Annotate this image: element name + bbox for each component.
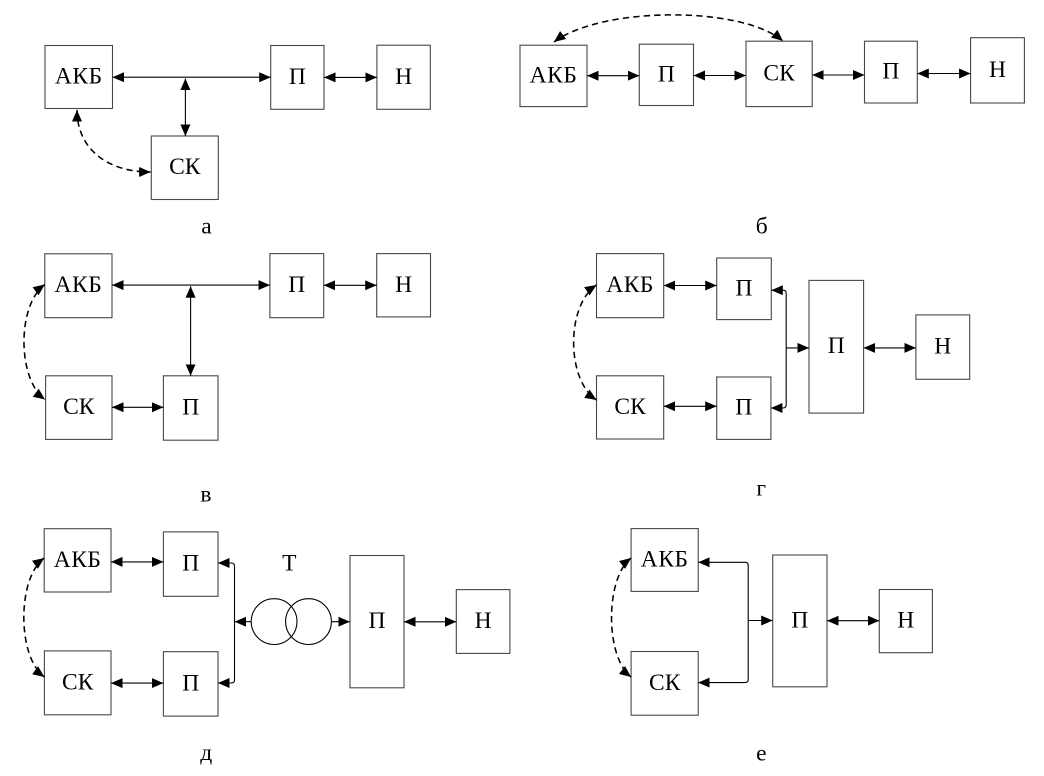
wire P2-N double arrow (b): [917, 73, 970, 75]
wire bus to AKB and SK (e): [698, 562, 748, 682]
wire P outputs to bus (d): [218, 563, 235, 683]
svg-text:АКБ: АКБ: [55, 272, 103, 298]
wire SK-P double arrow (g): [664, 405, 717, 407]
block P bottom (diagram d): [163, 652, 218, 716]
block P top (diagram d): [163, 532, 218, 596]
wire Pbig-N double arrow (d): [404, 621, 456, 623]
svg-text:П: П: [289, 64, 306, 90]
block SK (diagram a): [151, 136, 218, 200]
svg-text:е: е: [756, 741, 766, 767]
wire P outputs to bus (g): [771, 290, 786, 408]
svg-text:П: П: [828, 333, 845, 359]
block P1 (diagram b): [639, 44, 693, 105]
svg-text:СК: СК: [763, 60, 795, 86]
transformer T winding 2 (d): [286, 599, 332, 645]
block N (diagram a): [377, 45, 430, 109]
wire junction-P vertical double arrow (v): [190, 286, 192, 376]
svg-text:П: П: [288, 272, 305, 298]
wire AKB-P double arrow (v): [112, 284, 270, 286]
block N (diagram e): [879, 590, 932, 653]
block P bottom (diagram g): [717, 377, 771, 439]
svg-text:г: г: [756, 476, 766, 502]
block P bottom (diagram v): [163, 376, 218, 440]
wire SK-P double arrow (d): [111, 682, 163, 684]
wire AKB-P double arrow (a): [113, 76, 271, 78]
dashed arrow AKB-SK (d): [24, 558, 45, 677]
block P (diagram a): [271, 46, 324, 110]
svg-text:АКБ: АКБ: [641, 547, 689, 573]
wire Pbig-N double arrow (g): [864, 347, 916, 349]
svg-text:СК: СК: [614, 394, 646, 420]
dashed arrow AKB-SK over top (b): [554, 15, 783, 42]
block N (diagram v): [377, 254, 431, 317]
svg-text:П: П: [882, 59, 899, 85]
wire Pbig-N double arrow (e): [827, 620, 879, 622]
svg-text:СК: СК: [62, 669, 94, 695]
wire bus to P big (e): [748, 620, 773, 622]
svg-text:д: д: [200, 740, 212, 766]
svg-text:Н: Н: [934, 334, 951, 360]
svg-text:Н: Н: [395, 272, 412, 298]
wire P-N double arrow (a): [324, 76, 377, 78]
block AKB (diagram b): [520, 45, 587, 106]
block P big (diagram g): [809, 280, 864, 413]
wire SK-P double arrow (v): [112, 406, 163, 408]
wire transformer to bus (d): [235, 621, 252, 623]
block P top (diagram g): [717, 258, 772, 320]
svg-text:АКБ: АКБ: [55, 64, 103, 90]
block SK (diagram d): [44, 651, 111, 715]
wire junction-SK vertical double arrow (a): [184, 79, 186, 137]
svg-text:П: П: [182, 395, 199, 421]
block SK (diagram v): [46, 376, 112, 440]
block SK (diagram b): [746, 41, 812, 106]
svg-text:б: б: [756, 213, 768, 239]
block SK (diagram e): [631, 652, 698, 716]
block P big (diagram d): [350, 556, 404, 688]
wire AKB-P double arrow (g): [664, 285, 717, 287]
svg-text:П: П: [736, 275, 753, 301]
svg-text:СК: СК: [649, 670, 681, 696]
wire P-N double arrow (v): [324, 284, 377, 286]
svg-text:СК: СК: [169, 154, 201, 180]
svg-text:П: П: [791, 607, 808, 633]
wire P1-SK double arrow (b): [694, 75, 747, 77]
dashed arrow AKB-SK (v): [24, 285, 45, 400]
svg-text:П: П: [735, 395, 752, 421]
svg-text:Н: Н: [989, 57, 1006, 83]
wire bus to P big (g): [786, 347, 809, 349]
svg-text:Н: Н: [475, 608, 492, 634]
dashed arrow AKB-SK (g): [574, 285, 597, 400]
dashed arrow AKB-SK (e): [612, 558, 632, 677]
dashed arrow AKB-SK (a): [77, 110, 151, 172]
block N (diagram g): [916, 315, 970, 379]
wire transformer to P big (d): [331, 621, 350, 623]
svg-text:П: П: [182, 670, 199, 696]
svg-text:СК: СК: [63, 394, 95, 420]
block AKB (diagram g): [597, 254, 664, 318]
transformer T winding 1 (d): [251, 599, 297, 645]
wire SK-P2 double arrow (b): [812, 74, 864, 76]
block N (diagram b): [971, 38, 1025, 103]
block AKB (diagram a): [45, 46, 113, 109]
svg-text:Т: Т: [282, 551, 296, 577]
svg-text:Н: Н: [897, 608, 914, 634]
wire AKB-P1 double arrow (b): [587, 75, 639, 77]
block AKB (diagram v): [45, 254, 112, 318]
svg-text:Н: Н: [395, 64, 412, 90]
block N (diagram d): [456, 590, 510, 654]
block P2 (diagram b): [865, 41, 918, 103]
svg-text:а: а: [201, 213, 212, 239]
svg-text:П: П: [182, 551, 199, 577]
svg-text:АКБ: АКБ: [530, 62, 578, 88]
wire AKB-P double arrow (d): [111, 561, 163, 563]
svg-text:АКБ: АКБ: [54, 547, 102, 573]
svg-text:в: в: [200, 481, 211, 507]
block P big (diagram e): [773, 555, 827, 687]
block SK (diagram g): [597, 376, 664, 439]
svg-text:П: П: [369, 608, 386, 634]
block AKB (diagram e): [631, 529, 698, 592]
block AKB (diagram d): [44, 529, 111, 592]
svg-text:П: П: [658, 61, 675, 87]
block P top (diagram v): [270, 254, 324, 318]
svg-text:АКБ: АКБ: [606, 272, 654, 298]
